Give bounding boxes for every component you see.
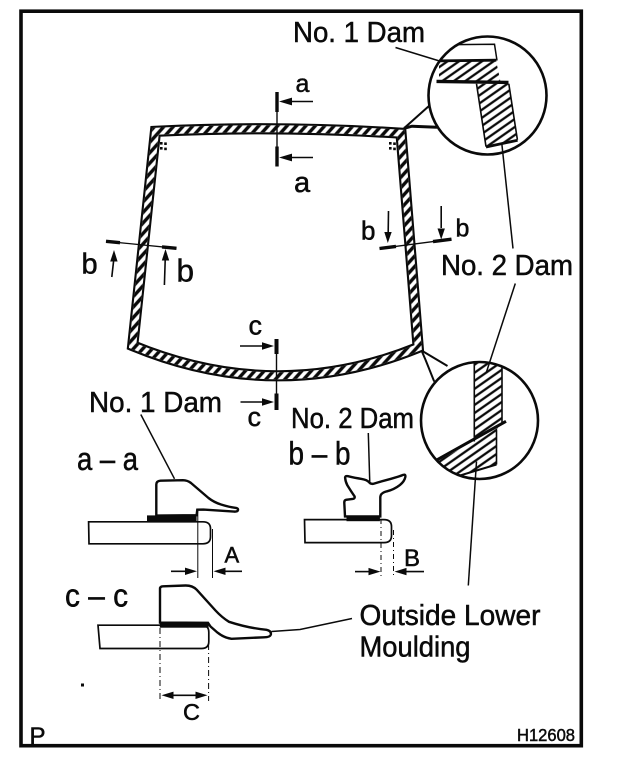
leader circle2 to Outside Lower Moulding: [468, 462, 476, 586]
a-a section drawing: [89, 480, 242, 578]
dim lines A: [197, 511, 199, 578]
leader circle1 band to No.2 Dam label: [502, 144, 513, 249]
section cut a-a: [277, 92, 313, 167]
svg-text:a: a: [294, 167, 311, 199]
detail circle 1: [429, 37, 547, 155]
section cut b-b right: [380, 206, 452, 249]
svg-text:H12608: H12608: [517, 725, 575, 745]
svg-text:a – a: a – a: [77, 441, 138, 477]
thin body outline in circle 1: [456, 44, 497, 60]
glass bar c-c: [98, 625, 209, 648]
svg-text:a: a: [296, 70, 310, 98]
dim lines C: [159, 628, 161, 701]
leader to circle 1: [396, 48, 440, 62]
glass top thick line: [437, 81, 509, 82]
svg-text:c – c: c – c: [65, 578, 128, 614]
svg-text:No. 2 Dam: No. 2 Dam: [291, 403, 414, 435]
svg-text:No. 1 Dam: No. 1 Dam: [293, 17, 425, 49]
balloon tail 2: [422, 351, 448, 367]
thick diagonal moulding top edge: [434, 421, 507, 462]
svg-text:b: b: [456, 215, 470, 243]
section cut b-b left: [106, 241, 177, 285]
glass bar b-b: [305, 520, 392, 543]
small dot: [81, 684, 84, 687]
svg-text:C: C: [183, 699, 200, 725]
svg-text:b – b: b – b: [289, 436, 351, 472]
svg-text:No. 1 Dam: No. 1 Dam: [89, 387, 222, 419]
svg-text:A: A: [225, 543, 240, 568]
b-b section drawing: [305, 475, 425, 576]
glass bar: [89, 522, 211, 544]
adhesive strip c-c: [160, 623, 209, 628]
windshield glass edge band (hatched): [133, 129, 419, 376]
corner mark right: [389, 142, 396, 150]
adhesive strip b-b: [347, 516, 380, 521]
section cut c-c: [240, 339, 277, 410]
adhesive strip: [147, 515, 197, 521]
glass edge hatched band: [477, 84, 518, 147]
svg-text:b: b: [177, 253, 195, 289]
dim lines B: [380, 519, 382, 576]
leader to Outside Lower Moulding: [272, 619, 353, 632]
dam profile b-b: [344, 475, 405, 517]
svg-text:b: b: [82, 249, 98, 281]
svg-text:Outside Lower: Outside Lower: [360, 600, 541, 632]
No.2 dam + moulding hatched Z band: [435, 363, 503, 479]
dam profile c-c with moulding tail: [160, 585, 271, 638]
svg-text:Moulding: Moulding: [360, 632, 471, 664]
dam profile: [156, 480, 238, 515]
No.1 dam hatched band: [439, 60, 500, 81]
svg-text:B: B: [404, 545, 420, 572]
c-c section drawing: [98, 585, 352, 725]
svg-text:P: P: [30, 723, 46, 750]
svg-text:No. 2 Dam: No. 2 Dam: [441, 250, 573, 282]
svg-text:c: c: [249, 311, 263, 341]
leader No.2 label to circle 2: [486, 284, 515, 373]
svg-text:c: c: [248, 402, 262, 432]
corner mark left: [160, 142, 167, 150]
balloon tail 1: [404, 106, 430, 129]
detail circle 2: [421, 362, 538, 479]
svg-text:b: b: [361, 216, 375, 246]
